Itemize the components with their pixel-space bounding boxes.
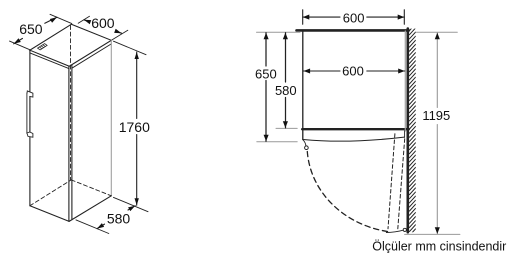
dim line segments [14,38,23,43]
door corner circle at 90 deg [403,228,406,231]
open door front (curved) [386,230,404,233]
right edge (gray) [404,31,406,131]
svg-text:650: 650 [255,66,277,81]
1195 right dimension [435,33,440,234]
svg-text:650: 650 [19,21,43,37]
top hinge grille [38,44,48,50]
600 top dimension [303,10,405,24]
door swing arc (dashed) [307,152,388,232]
svg-text:Ölçüler mm cinsindendir: Ölçüler mm cinsindendir [372,240,506,254]
open door side (dashed) outer [388,134,395,229]
wall line (thick) [406,29,409,233]
1760 dimension (3D, right) [114,41,149,212]
front (bottom) thick edge [302,128,409,130]
650 left dimension [264,33,269,142]
door corner to pivot tail [303,140,306,146]
bottom front-right edge [69,196,111,222]
wall hatching [409,24,416,236]
svg-text:580: 580 [107,210,131,226]
svg-text:580: 580 [275,83,297,98]
fridge top face [30,24,111,68]
svg-text:600: 600 [343,11,365,26]
fridge front-right door edge [68,66,70,221]
580 left dimension [283,33,288,128]
650 dimension (3D, top-left) [10,14,72,50]
600 inner dimension [304,68,405,73]
extension at lower-left [10,41,31,50]
hidden bottom-right edge (dashed) [71,180,111,196]
svg-text:600: 600 [91,15,115,31]
bottom front-left edge [30,206,69,222]
svg-text:1760: 1760 [119,119,150,135]
top face inner rim lines [30,53,69,69]
hidden bottom-left edge (dashed) [30,180,71,206]
door handle [27,91,33,137]
door hinge corner circle (closed) [305,146,309,150]
arrowheads [14,38,21,44]
fridge right rear vertical edge (gray) [110,40,112,196]
hidden back vertical edge (dashed) [70,26,72,180]
open door side (dashed) inner [398,139,405,229]
svg-text:600: 600 [342,64,364,79]
svg-text:1195: 1195 [422,108,450,123]
1195 ticks (gray) [417,31,458,33]
fridge front-left edge [29,50,31,206]
left ticks (gray) [257,31,301,33]
fridge body rectangle [297,30,409,139]
closed door front (curved) [303,137,404,141]
closed door right end edge [404,131,406,138]
extension at upper-right [50,14,72,23]
600 dimension (3D, top-right) [78,16,128,40]
580 dimension (3D, bottom) [76,206,135,234]
fridge body front-right corner edge [71,65,73,220]
left edge [302,31,304,140]
back (top) thick edge [297,29,409,32]
